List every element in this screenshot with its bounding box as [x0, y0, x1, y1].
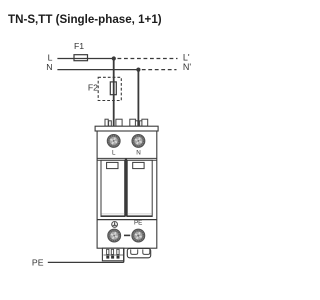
svg-text:N: N [136, 150, 141, 157]
svg-text:F1: F1 [74, 41, 84, 51]
svg-text:PE: PE [32, 257, 44, 267]
svg-text:F2: F2 [88, 83, 98, 93]
svg-text:TN-S,TT (Single-phase, 1+1): TN-S,TT (Single-phase, 1+1) [8, 13, 162, 26]
svg-text:N': N' [183, 62, 191, 72]
svg-text:N: N [46, 62, 52, 72]
svg-text:L: L [112, 150, 116, 157]
svg-text:L': L' [183, 53, 190, 63]
svg-text:PE: PE [134, 219, 142, 226]
